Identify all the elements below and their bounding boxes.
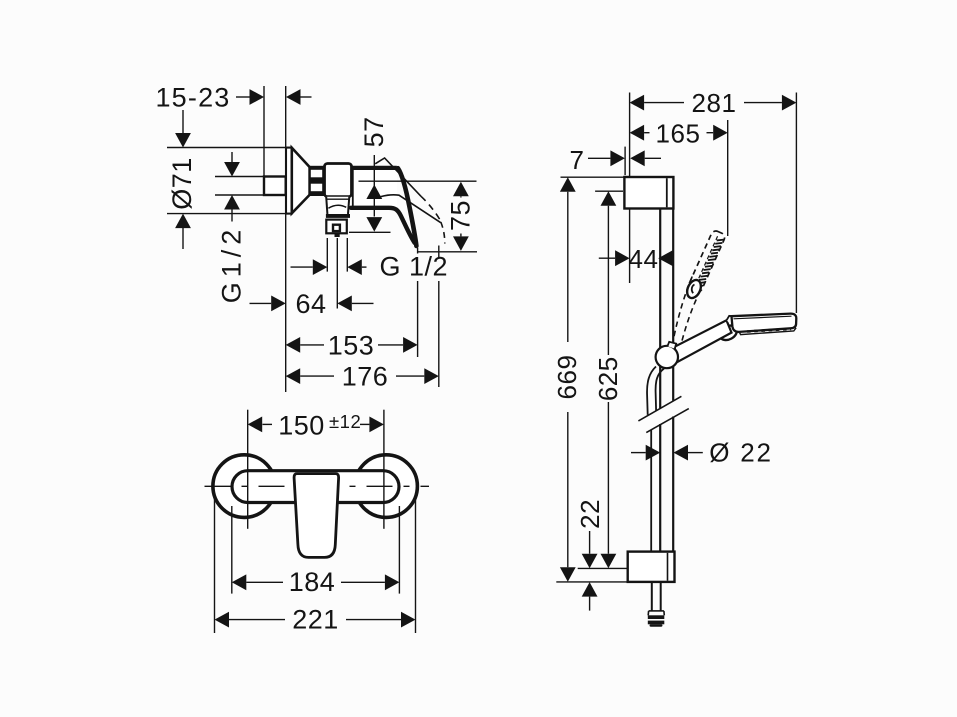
svg-text:G1/2: G1/2 xyxy=(217,225,247,304)
svg-text:44: 44 xyxy=(629,244,659,274)
svg-text:184: 184 xyxy=(289,567,336,597)
svg-text:64: 64 xyxy=(295,289,326,319)
svg-text:7: 7 xyxy=(570,145,585,175)
svg-text:±12: ±12 xyxy=(329,411,361,432)
svg-text:176: 176 xyxy=(342,362,389,392)
svg-text:75: 75 xyxy=(445,200,475,231)
svg-text:221: 221 xyxy=(292,605,339,635)
svg-text:625: 625 xyxy=(593,356,623,401)
svg-text:Ø 22: Ø 22 xyxy=(709,438,773,468)
svg-text:669: 669 xyxy=(552,355,582,400)
svg-text:G 1/2: G 1/2 xyxy=(380,252,449,282)
svg-text:281: 281 xyxy=(692,88,737,118)
svg-text:15-23: 15-23 xyxy=(155,83,230,113)
svg-text:22: 22 xyxy=(575,499,605,529)
svg-text:165: 165 xyxy=(656,118,701,148)
svg-text:57: 57 xyxy=(359,116,389,147)
svg-text:150: 150 xyxy=(278,410,325,440)
svg-text:Ø71: Ø71 xyxy=(167,157,197,210)
svg-text:153: 153 xyxy=(328,330,375,360)
